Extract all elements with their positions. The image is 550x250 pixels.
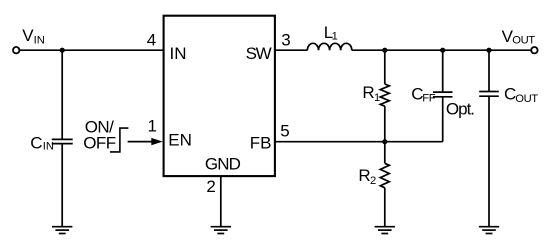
label R1 — [362, 83, 380, 104]
capacitor CFF — [433, 92, 453, 97]
capacitor CIN — [52, 139, 73, 143]
svg-text:SW: SW — [246, 44, 272, 63]
node junction dot (CFF top) — [440, 48, 445, 53]
svg-text:IN: IN — [43, 140, 54, 152]
wire VIN to IN pin — [20, 49, 164, 51]
label VOUT — [502, 27, 536, 47]
wire R1 bottom — [384, 106, 386, 142]
resistor R1 — [380, 84, 389, 106]
wire COUT bottom — [488, 96, 490, 226]
node junction dot (FB / R1 / R2) — [382, 139, 387, 144]
svg-text:OUT: OUT — [512, 35, 535, 47]
wire CIN bottom — [61, 144, 63, 227]
svg-text:Opt.: Opt. — [446, 99, 474, 118]
svg-text:1: 1 — [332, 31, 338, 43]
wire CFF top — [442, 50, 444, 92]
capacitor COUT — [479, 92, 499, 97]
resistor R2 — [380, 163, 389, 188]
wire GND pin — [220, 176, 222, 227]
svg-text:FB: FB — [250, 134, 272, 153]
wire EN arrow shaft — [128, 141, 153, 143]
inductor L1 — [307, 43, 351, 50]
wire CIN top — [61, 50, 63, 139]
EN arrowhead — [151, 138, 162, 145]
wire FB pin to CFF — [275, 141, 443, 143]
svg-text:R: R — [362, 83, 374, 102]
label R2 — [358, 166, 376, 187]
svg-text:2: 2 — [370, 175, 376, 187]
svg-text:5: 5 — [280, 122, 289, 141]
label ON/OFF — [83, 118, 115, 153]
svg-text:1: 1 — [148, 116, 157, 135]
svg-text:IN: IN — [170, 44, 187, 63]
node A junction dot (VIN / CIN) — [60, 48, 65, 53]
node junction dot (R1 top) — [382, 48, 387, 53]
ground (COUT) — [479, 227, 499, 234]
label VIN — [22, 26, 45, 47]
label L1 — [324, 23, 338, 43]
svg-text:4: 4 — [147, 30, 156, 49]
terminal VOUT (open circle) — [531, 47, 537, 53]
label COUT — [504, 85, 538, 105]
ON/OFF step waveform symbol — [110, 128, 128, 152]
wire SW pin to L1 — [275, 49, 307, 51]
svg-text:R: R — [358, 166, 370, 185]
svg-text:OFF: OFF — [83, 134, 115, 153]
svg-text:1: 1 — [374, 92, 380, 104]
svg-text:EN: EN — [168, 130, 192, 149]
svg-text:V: V — [22, 26, 34, 45]
svg-text:GND: GND — [205, 155, 241, 174]
wire R1 top — [384, 50, 386, 84]
svg-text:3: 3 — [281, 30, 290, 49]
svg-text:IN: IN — [34, 35, 45, 47]
wire COUT top — [488, 50, 490, 91]
label CFF — [411, 84, 436, 104]
wire L1 to VOUT rail — [352, 49, 531, 51]
ground (CIN) — [52, 227, 72, 234]
node junction dot (COUT top) — [486, 48, 491, 53]
ground (IC GND) — [211, 227, 231, 234]
svg-text:OUT: OUT — [515, 93, 538, 105]
wire CFF vertical (FB riser) — [442, 97, 444, 142]
wire R2 bottom — [384, 188, 386, 227]
svg-text:FF: FF — [422, 93, 436, 105]
wire R2 top — [384, 142, 386, 164]
terminal VIN (open circle) — [13, 47, 19, 53]
svg-text:2: 2 — [206, 177, 215, 196]
svg-text:C: C — [30, 134, 42, 153]
label CIN — [30, 134, 54, 153]
ground (R2) — [375, 227, 395, 234]
op-amp U1 regulator IC box — [164, 16, 275, 176]
